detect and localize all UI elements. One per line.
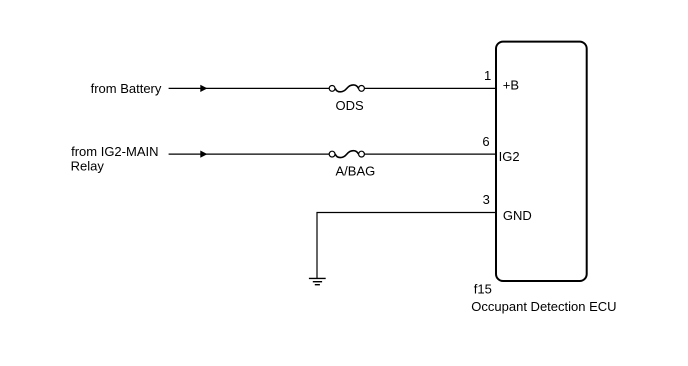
wire W3: ground to pin 3 [317,213,496,279]
wire W2a: IG2-MAIN relay feed to fuse A/BAG [169,153,329,155]
fuse ODS left terminal [329,86,335,92]
svg-text:ODS: ODS [336,98,365,113]
svg-text:from Battery: from Battery [91,81,162,96]
svg-text:+B: +B [503,77,519,92]
wire W2b: fuse A/BAG to pin 6 [365,153,496,155]
fuse ODS right terminal [359,86,365,92]
svg-text:IG2: IG2 [499,149,520,164]
wire W1a: Battery feed to fuse ODS [169,87,329,89]
svg-text:1: 1 [484,68,491,83]
svg-text:Occupant Detection ECU: Occupant Detection ECU [471,299,616,314]
fuse ODS element [335,85,358,92]
arrow on wire W1 [200,85,207,92]
svg-text:GND: GND [503,208,532,223]
ECU box: Occupant Detection ECU [496,42,587,281]
fuse A/BAG element [335,151,358,158]
svg-text:from IG2-MAIN: from IG2-MAIN [71,144,158,159]
wire W1b: fuse ODS to pin 1 [365,87,496,89]
svg-text:3: 3 [483,192,490,207]
fuse A/BAG left terminal [329,151,335,157]
ground symbol [309,278,326,284]
svg-text:f15: f15 [474,281,492,296]
fuse A/BAG right terminal [359,151,365,157]
arrow on wire W2 [200,151,207,158]
svg-text:A/BAG: A/BAG [336,163,376,178]
svg-text:6: 6 [482,134,489,149]
svg-text:Relay: Relay [71,159,105,174]
